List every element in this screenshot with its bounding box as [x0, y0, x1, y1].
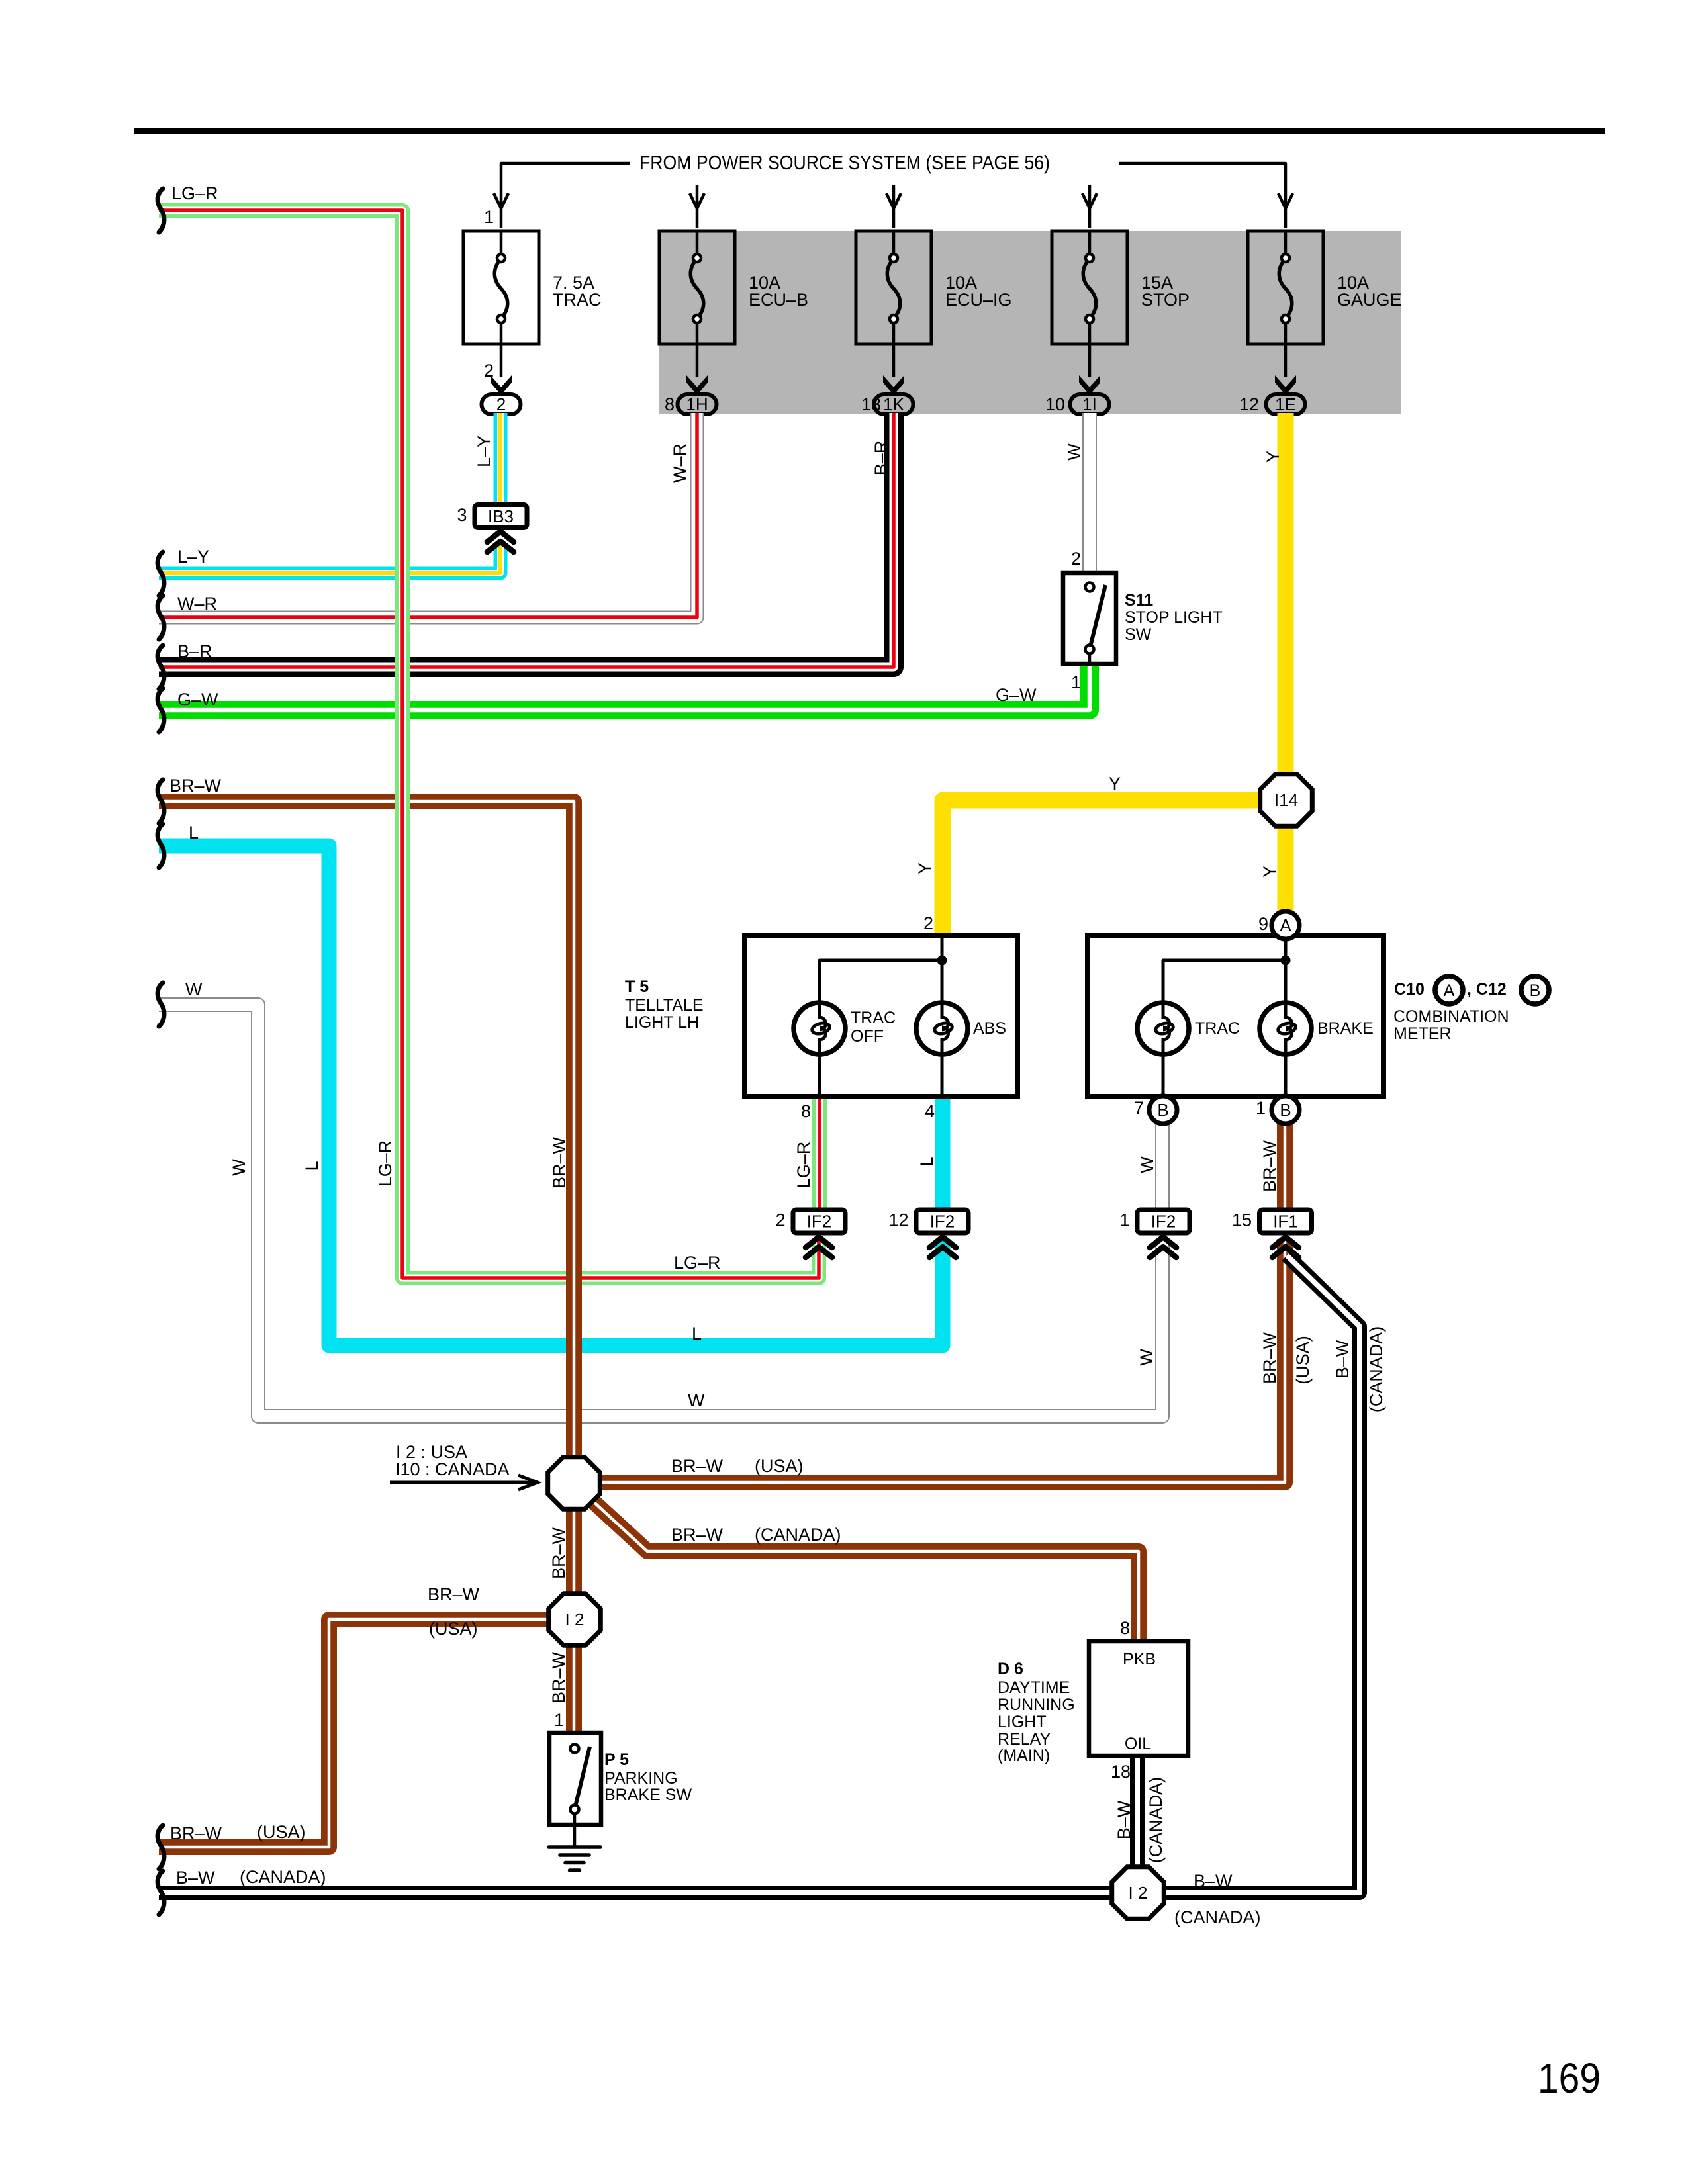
svg-text:Y: Y — [1263, 451, 1283, 463]
wire L-Y stub from connector 2 — [494, 413, 508, 506]
connector connector 1E — [1266, 394, 1305, 414]
svg-text:S11: S11 — [1125, 591, 1153, 610]
svg-text:TRAC: TRAC — [851, 1009, 896, 1027]
indicator bulb ABS — [916, 1003, 968, 1054]
svg-text:2: 2 — [496, 394, 506, 414]
svg-text:BR–W: BR–W — [170, 1823, 222, 1843]
junction connector I2 (canada) — [1112, 1867, 1164, 1919]
C10 internal wire — [1163, 939, 1286, 1003]
pin B pin7 of C10 — [1149, 1096, 1177, 1124]
T5 bulb leads — [820, 1054, 942, 1097]
connector connector 1K — [874, 394, 914, 414]
indicator bulb TRAC OFF — [794, 1003, 845, 1054]
power feed line left — [501, 163, 630, 228]
connector IB3 — [475, 505, 527, 528]
svg-text:10: 10 — [1045, 394, 1065, 414]
arrow into fuse TRAC — [494, 193, 508, 208]
power stub x1350 — [892, 185, 896, 228]
P5 switch blade — [575, 1747, 590, 1809]
svg-text:BRAKE: BRAKE — [1317, 1019, 1374, 1038]
svg-text:IF1: IF1 — [1273, 1212, 1298, 1232]
wire W run to stop light switch — [1082, 413, 1097, 573]
indicator bulb BRAKE — [1260, 1003, 1311, 1054]
arrowhead at connector 1K — [883, 375, 904, 395]
svg-text:B: B — [1280, 1100, 1291, 1120]
svg-text:B–R: B–R — [871, 441, 891, 476]
fuse block shaded area — [659, 231, 1401, 414]
svg-text:BR–W: BR–W — [549, 1136, 569, 1189]
svg-text:169: 169 — [1538, 2054, 1601, 2102]
annotation arrow — [390, 1475, 538, 1490]
connector IF2 pin2 — [793, 1210, 845, 1233]
svg-text:Y: Y — [915, 862, 935, 874]
wire BR-W run IF1 to junction — [600, 1239, 1285, 1482]
svg-text:IF2: IF2 — [1151, 1212, 1176, 1232]
svg-text:(USA): (USA) — [429, 1619, 478, 1639]
connector-continuation brace LG-R entry — [158, 189, 164, 232]
wire B-W run (CANADA) — [159, 1255, 1360, 1893]
connector connector 1I — [1070, 394, 1109, 414]
svg-text:(MAIN): (MAIN) — [998, 1747, 1050, 1765]
connector IF2 pin1 — [1137, 1210, 1190, 1233]
P5 lower lead — [573, 1813, 577, 1847]
connector connector 1H — [678, 394, 717, 414]
pin letter B note — [1521, 976, 1549, 1004]
fuse 10A GAUGE — [1248, 231, 1323, 344]
svg-text:1: 1 — [1071, 672, 1081, 692]
wire BR-W main left run — [159, 801, 574, 1733]
svg-text:T 5: T 5 — [625, 978, 649, 996]
svg-text:A: A — [1280, 915, 1291, 935]
junction connector I2/I10 junction — [548, 1457, 600, 1510]
svg-text:P 5: P 5 — [604, 1751, 629, 1769]
power feed line right — [1119, 163, 1286, 228]
svg-text:COMBINATION: COMBINATION — [1393, 1007, 1509, 1026]
svg-text:15: 15 — [1232, 1210, 1252, 1230]
svg-text:W–R: W–R — [177, 594, 217, 614]
connector-continuation brace L entry — [158, 824, 164, 868]
svg-text:BR–W: BR–W — [549, 1651, 569, 1704]
connector connector 2 — [482, 394, 521, 414]
svg-text:1: 1 — [554, 1710, 564, 1730]
svg-text:(CANADA): (CANADA) — [1174, 1907, 1261, 1927]
wire BR-W run (CANADA) to D6 — [581, 1490, 1139, 1641]
svg-text:1: 1 — [1119, 1210, 1129, 1230]
wire W stub C10 pin 7 — [1155, 1124, 1170, 1210]
svg-text:B: B — [1530, 981, 1541, 1000]
arrowhead at connector 1I — [1079, 375, 1100, 395]
svg-text:PKB: PKB — [1123, 1650, 1156, 1668]
arrowhead at connector 2 — [491, 375, 512, 395]
connector-continuation brace B-W (CANADA) entry — [158, 1871, 164, 1915]
svg-text:L: L — [189, 823, 199, 842]
relay D6 daytime running light relay — [1089, 1641, 1188, 1756]
svg-text:3: 3 — [457, 505, 467, 525]
svg-text:Y: Y — [1109, 774, 1121, 794]
svg-text:4: 4 — [925, 1101, 935, 1121]
svg-text:1: 1 — [484, 207, 494, 227]
fuse 10A ECU-IG — [856, 231, 931, 344]
junction dot T5 — [937, 956, 947, 966]
svg-text:OIL: OIL — [1125, 1735, 1151, 1753]
svg-text:TELLTALE: TELLTALE — [625, 996, 704, 1015]
wire B-R run — [159, 413, 894, 667]
svg-text:LG–R: LG–R — [794, 1142, 814, 1189]
page-link chevrons IF1 pin15 — [1272, 1237, 1299, 1248]
svg-text:1I: 1I — [1082, 394, 1097, 414]
arrow into fuse GAUGE — [1278, 193, 1293, 208]
svg-text:2: 2 — [923, 913, 933, 933]
page-link chevrons IF2 pin12 — [929, 1237, 956, 1248]
svg-text:1K: 1K — [883, 394, 904, 414]
svg-text:IF2: IF2 — [807, 1212, 832, 1232]
svg-text:BR–W: BR–W — [1260, 1332, 1280, 1384]
svg-text:ECU–B: ECU–B — [749, 290, 808, 310]
svg-text:BRAKE SW: BRAKE SW — [604, 1786, 692, 1804]
fuse 10A ECU-B — [659, 231, 735, 344]
svg-text:C10: C10 — [1394, 980, 1425, 999]
power stub x1053 — [696, 185, 699, 228]
svg-text:D 6: D 6 — [998, 1660, 1023, 1678]
svg-text:12: 12 — [888, 1210, 908, 1230]
page-link chevrons IF2 pin2 — [806, 1237, 832, 1248]
wire B-W stub D6 pin 18 — [1130, 1756, 1145, 1869]
svg-text:PARKING: PARKING — [604, 1769, 678, 1788]
power stub x1646 — [1088, 185, 1092, 228]
wire Y run to telltale — [943, 800, 1261, 936]
connector-continuation brace W entry — [158, 983, 164, 1026]
junction dot C10 — [1281, 956, 1291, 966]
wire G-W run — [159, 664, 1090, 710]
svg-text:B–R: B–R — [177, 641, 212, 661]
wire LG-R lower run — [402, 1032, 819, 1278]
svg-text:L: L — [692, 1324, 702, 1343]
svg-text:RUNNING: RUNNING — [998, 1696, 1075, 1714]
svg-text:DAYTIME: DAYTIME — [998, 1678, 1070, 1697]
svg-text:LIGHT LH: LIGHT LH — [625, 1013, 699, 1032]
svg-text:1H: 1H — [686, 394, 708, 414]
pin A of C10 — [1272, 911, 1299, 939]
arrowhead at connector 1E — [1275, 375, 1296, 395]
svg-text:A: A — [1444, 981, 1455, 1000]
svg-text:2: 2 — [1071, 549, 1081, 569]
svg-text:W: W — [688, 1390, 705, 1410]
svg-text:OFF: OFF — [851, 1027, 884, 1046]
arrowhead at connector 1H — [686, 375, 708, 395]
svg-text:LG–R: LG–R — [171, 183, 218, 203]
S11 lower lead — [1088, 653, 1092, 664]
page-link chevrons IF2 pin1 — [1150, 1237, 1176, 1248]
svg-text:BR–W: BR–W — [671, 1525, 724, 1545]
svg-text:W: W — [1137, 1156, 1157, 1173]
wire W-R run — [159, 413, 697, 617]
wire LG-R stub T5 pin 8 — [812, 1097, 827, 1210]
svg-text:I10 : CANADA: I10 : CANADA — [395, 1459, 510, 1479]
svg-text:BR–W: BR–W — [1260, 1140, 1280, 1192]
svg-text:8: 8 — [1120, 1618, 1130, 1638]
connector-continuation brace BR-W entry — [158, 780, 164, 823]
svg-text:LIGHT: LIGHT — [998, 1713, 1047, 1731]
svg-text:ABS: ABS — [973, 1019, 1006, 1038]
switch P5 parking brake — [549, 1733, 601, 1825]
svg-text:STOP: STOP — [1141, 290, 1190, 310]
fuse 7.5A TRAC — [463, 231, 539, 344]
pin letter A note — [1435, 976, 1463, 1004]
svg-text:METER: METER — [1393, 1024, 1452, 1043]
pin B pin1 of C10 — [1272, 1096, 1299, 1124]
svg-text:L: L — [917, 1156, 937, 1166]
svg-text:LG–R: LG–R — [674, 1253, 721, 1273]
svg-text:STOP LIGHT: STOP LIGHT — [1125, 608, 1223, 627]
svg-text:9: 9 — [1258, 914, 1268, 934]
svg-text:I 2: I 2 — [1129, 1883, 1148, 1903]
svg-text:L–Y: L–Y — [177, 547, 209, 567]
svg-text:, C12: , C12 — [1467, 980, 1507, 999]
svg-text:BR–W: BR–W — [549, 1527, 569, 1579]
svg-text:(CANADA): (CANADA) — [240, 1867, 326, 1887]
svg-text:L–Y: L–Y — [474, 435, 494, 467]
connector-continuation brace L-Y entry — [158, 552, 164, 596]
wire Y run from 1E to meter — [1278, 413, 1294, 911]
svg-text:(USA): (USA) — [257, 1822, 306, 1842]
svg-text:2: 2 — [775, 1210, 785, 1230]
svg-text:1: 1 — [1256, 1098, 1266, 1118]
svg-text:W: W — [185, 979, 203, 999]
svg-text:B: B — [1157, 1100, 1168, 1120]
svg-text:ECU–IG: ECU–IG — [945, 290, 1012, 310]
wire L stub T5 pin 4 — [935, 1097, 951, 1210]
svg-text:BR–W: BR–W — [428, 1584, 480, 1604]
connector IF1 pin15 — [1260, 1210, 1312, 1233]
page-link chevrons IB3 — [487, 531, 514, 542]
junction connector I2 (parking brake) — [549, 1594, 601, 1646]
fuse 15A STOP — [1052, 231, 1127, 344]
svg-text:BR–W: BR–W — [671, 1456, 724, 1476]
wire BR-W run (USA) lower left — [159, 1619, 550, 1847]
ground symbol — [549, 1845, 600, 1849]
component box C10/C12 combination meter — [1088, 936, 1383, 1097]
svg-text:13: 13 — [861, 394, 881, 414]
svg-text:8: 8 — [665, 394, 675, 414]
svg-text:(CANADA): (CANADA) — [755, 1525, 841, 1545]
component box T5 telltale light LH — [745, 936, 1017, 1097]
wire BR-W stub C10 pin 1 — [1277, 1124, 1293, 1210]
svg-text:W: W — [1064, 443, 1084, 461]
svg-text:TRAC: TRAC — [1195, 1019, 1240, 1038]
connector IF2 pin12 — [916, 1210, 968, 1233]
svg-text:8: 8 — [801, 1101, 811, 1121]
svg-text:GAUGE: GAUGE — [1337, 290, 1402, 310]
switch S11 — [1063, 573, 1116, 664]
svg-text:BR–W: BR–W — [169, 776, 222, 796]
svg-text:B–W: B–W — [1194, 1871, 1233, 1891]
svg-text:Y: Y — [1260, 866, 1280, 878]
connector-continuation brace W-R entry — [158, 596, 164, 639]
svg-text:(USA): (USA) — [1293, 1336, 1313, 1385]
svg-text:(CANADA): (CANADA) — [1366, 1326, 1386, 1413]
arrow into fuse ECU-B — [690, 193, 704, 208]
svg-text:B–W: B–W — [1114, 1800, 1134, 1839]
wire W lower run — [159, 1005, 1162, 1416]
T5 internal wire — [820, 936, 942, 1003]
svg-text:LG–R: LG–R — [375, 1140, 395, 1187]
wire L-Y run — [159, 543, 500, 573]
svg-text:G–W: G–W — [177, 690, 218, 709]
svg-text:G–W: G–W — [996, 685, 1037, 705]
junction connector I14 — [1260, 774, 1313, 827]
arrow into fuse ECU-IG — [886, 193, 901, 208]
wire LG-R upper run — [159, 210, 402, 1032]
svg-text:TRAC: TRAC — [553, 290, 602, 310]
svg-text:IB3: IB3 — [488, 506, 514, 526]
svg-text:W: W — [229, 1159, 249, 1176]
svg-text:I14: I14 — [1274, 790, 1298, 810]
svg-text:IF2: IF2 — [930, 1212, 955, 1232]
svg-text:SW: SW — [1125, 625, 1152, 644]
svg-text:B–W: B–W — [1333, 1340, 1352, 1379]
svg-text:B–W: B–W — [176, 1868, 215, 1888]
connector-continuation brace BR-W (USA) entry — [158, 1825, 164, 1869]
C10 bulb leads — [1163, 1054, 1286, 1097]
indicator bulb TRAC — [1137, 1003, 1189, 1054]
svg-text:(CANADA): (CANADA) — [1146, 1777, 1166, 1864]
svg-text:RELAY: RELAY — [998, 1730, 1051, 1749]
connector-continuation brace G-W entry — [158, 688, 164, 732]
wire L lower run — [159, 846, 943, 1345]
svg-text:1E: 1E — [1275, 394, 1296, 414]
svg-text:W: W — [1137, 1349, 1156, 1366]
top rule — [134, 128, 1605, 134]
svg-text:18: 18 — [1111, 1762, 1131, 1782]
svg-text:(USA): (USA) — [755, 1456, 804, 1476]
connector-continuation brace B-R entry — [158, 645, 164, 689]
S11 switch blade — [1090, 585, 1105, 649]
svg-text:I 2: I 2 — [565, 1610, 585, 1629]
svg-text:L: L — [302, 1161, 322, 1171]
svg-text:7: 7 — [1134, 1098, 1144, 1118]
arrow into fuse STOP — [1082, 193, 1097, 208]
svg-text:FROM POWER SOURCE SYSTEM (SEE: FROM POWER SOURCE SYSTEM (SEE PAGE 56) — [639, 151, 1050, 174]
svg-text:12: 12 — [1239, 394, 1259, 414]
svg-text:W–R: W–R — [670, 443, 690, 483]
